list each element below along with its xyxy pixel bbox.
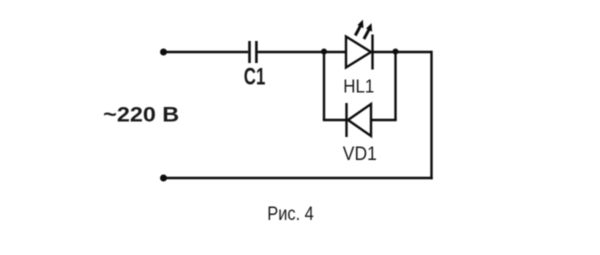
wire: branch horizontal right (VD1 to right vertical): [371, 119, 397, 121]
wire: branch left vertical: [323, 52, 325, 121]
node: bottom-left terminal: [160, 175, 167, 182]
wire: top wire middle segment (C1 to LED): [258, 51, 346, 53]
wire: bottom wire: [164, 177, 433, 179]
svg-text:~220 В: ~220 В: [103, 103, 179, 127]
svg-text:VD1: VD1: [343, 144, 377, 165]
node: junction right of parallel branch: [393, 49, 399, 55]
node: top-left terminal: [160, 49, 167, 56]
wire: branch right vertical: [394, 52, 396, 121]
diode VD1 cathode bar: [345, 103, 347, 137]
node: junction left of parallel branch: [321, 49, 327, 55]
LED HL1 cathode bar: [371, 35, 373, 70]
LED HL1 emission arrow 1: [354, 20, 364, 37]
capacitor C1 right plate: [255, 41, 258, 63]
wire: branch horizontal left (to VD1 cathode): [323, 119, 347, 121]
svg-text:Рис. 4: Рис. 4: [267, 204, 314, 225]
LED HL1 emission arrow 2: [363, 23, 373, 40]
diode VD1 triangle: [348, 104, 371, 136]
LED HL1 triangle (anode): [346, 37, 371, 68]
svg-text:C1: C1: [244, 64, 265, 91]
wire: top wire right segment (LED to right corner): [373, 51, 432, 53]
wire: right outer vertical: [430, 51, 432, 179]
capacitor C1 left plate: [248, 41, 251, 63]
wire: top wire left segment (terminal to C1): [164, 51, 249, 53]
svg-text:HL1: HL1: [343, 76, 374, 97]
